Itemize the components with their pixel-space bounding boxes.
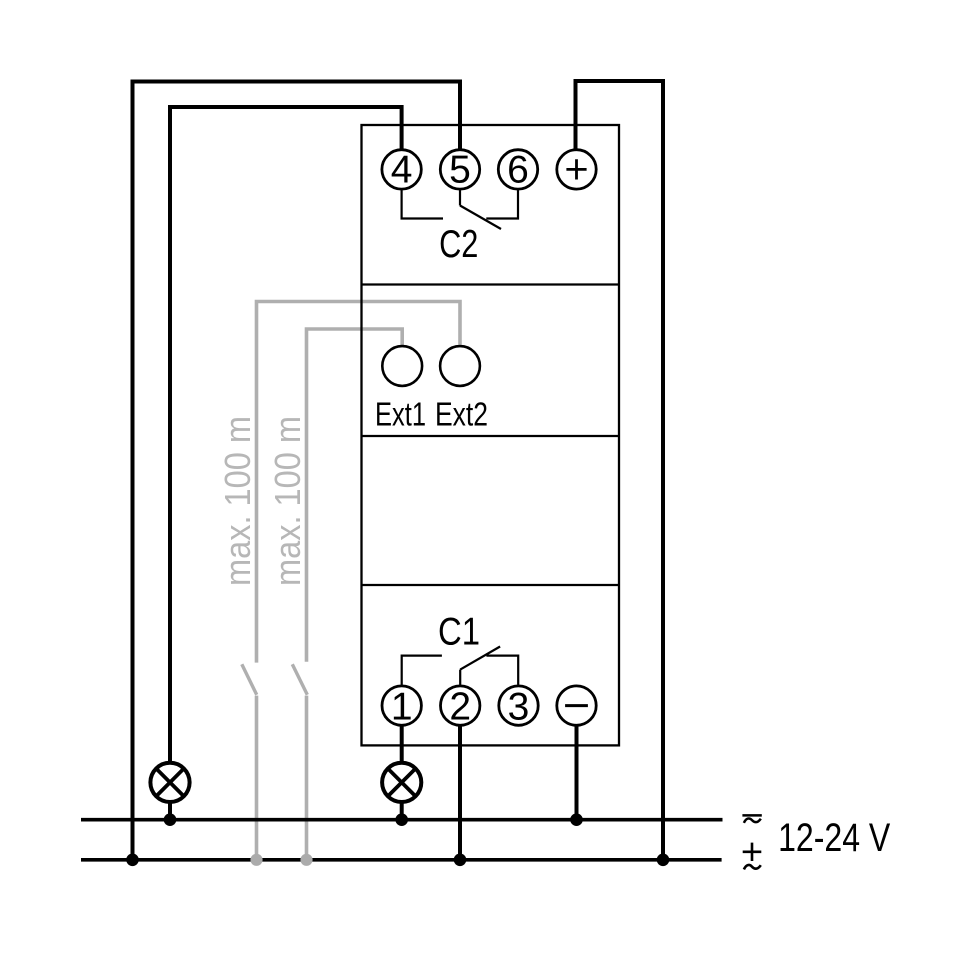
wire: outer loop from lower rail up over the top to terminal 5 xyxy=(133,82,461,860)
pushbutton S1 blade (gray, NO momentary) xyxy=(242,664,257,695)
svg-text:2: 2 xyxy=(449,685,471,728)
junction: terminal 2 wire on lower rail xyxy=(454,854,467,867)
device box outline xyxy=(362,125,620,745)
relay contact C2: stub from terminal 5 xyxy=(459,190,461,205)
wire: gray external wire from pushbutton S1 to Ext2 xyxy=(257,302,461,663)
junction: lamp E1 on upper rail xyxy=(164,813,177,826)
svg-text:5: 5 xyxy=(449,149,471,192)
lower supply rail xyxy=(81,858,722,862)
device box divider 3 xyxy=(362,584,620,586)
pushbutton S2 blade (gray, NO momentary) xyxy=(292,664,307,695)
svg-text:4: 4 xyxy=(391,149,413,192)
terminal 5 xyxy=(440,149,479,192)
wire: lamp E1 stub to upper rail xyxy=(168,803,172,820)
svg-text:1: 1 xyxy=(391,685,413,728)
wire: inner loop from lamp E1 up over the top to terminal 4 xyxy=(170,107,402,762)
svg-text:max. 100 m: max. 100 m xyxy=(217,416,258,586)
wire: gray external wire from pushbutton S2 to Ext1 xyxy=(307,329,403,662)
input Ext1 circle xyxy=(382,346,422,386)
svg-text:Ext1: Ext1 xyxy=(375,395,426,432)
junction: gray wire S2 on lower rail xyxy=(300,854,312,866)
terminal - xyxy=(557,686,596,725)
junction: outer loop on lower rail xyxy=(126,854,139,867)
input Ext2 circle xyxy=(440,346,480,386)
relay contact C1: wire from terminal 1 xyxy=(402,656,442,685)
wire: from terminal 1 down to lamp E2 xyxy=(400,726,404,762)
relay contact C2: wire from terminal 6 xyxy=(486,190,518,218)
relay contact C1: wire from terminal 3 xyxy=(486,656,518,685)
terminal 2 xyxy=(441,685,480,728)
wire: gray from pushbutton S1 down to lower supply rail xyxy=(255,696,259,860)
lamp E1 (circle with X) xyxy=(150,763,189,802)
wire: from terminal - down to upper supply rail xyxy=(575,726,579,820)
device box divider 1 xyxy=(362,283,620,285)
relay contact C2: switch blade xyxy=(460,206,501,230)
svg-text:12-24 V: 12-24 V xyxy=(778,816,890,860)
terminal 6 xyxy=(498,149,537,192)
supply polarity symbol: minus over tilde (upper rail) xyxy=(742,815,761,823)
svg-text:max. 100 m: max. 100 m xyxy=(267,416,308,586)
terminal 1 xyxy=(382,685,421,728)
wire: lamp E2 stub to upper rail xyxy=(400,803,404,820)
lamp E2 (circle with X) xyxy=(382,763,421,802)
terminal 3 xyxy=(499,685,538,728)
wire: from terminal 2 down to lower supply rail xyxy=(458,726,462,860)
relay contact C2: wire from terminal 4 xyxy=(402,190,443,218)
supply polarity symbol: plus over tilde (lower rail) xyxy=(743,843,762,870)
relay contact C1: switch blade xyxy=(460,647,500,670)
terminal 4 xyxy=(382,149,421,192)
svg-text:C1: C1 xyxy=(438,611,480,654)
wire: gray from pushbutton S2 down to lower supply rail xyxy=(305,696,309,860)
junction: + return wire on lower rail xyxy=(657,854,670,867)
relay contact C1: stub from terminal 2 xyxy=(459,670,461,685)
junction: terminal - wire on upper rail xyxy=(570,813,583,826)
svg-text:6: 6 xyxy=(507,149,529,192)
svg-text:Ext2: Ext2 xyxy=(435,395,488,432)
device box divider 2 xyxy=(362,435,620,437)
wire: from terminal + up, right and down to lower supply rail xyxy=(576,81,664,860)
upper supply rail xyxy=(81,818,723,822)
terminal + xyxy=(557,150,596,189)
junction: gray wire S1 on lower rail xyxy=(250,854,262,866)
svg-text:C2: C2 xyxy=(439,223,478,266)
svg-text:3: 3 xyxy=(508,685,530,728)
junction: lamp E2 on upper rail xyxy=(395,813,408,826)
